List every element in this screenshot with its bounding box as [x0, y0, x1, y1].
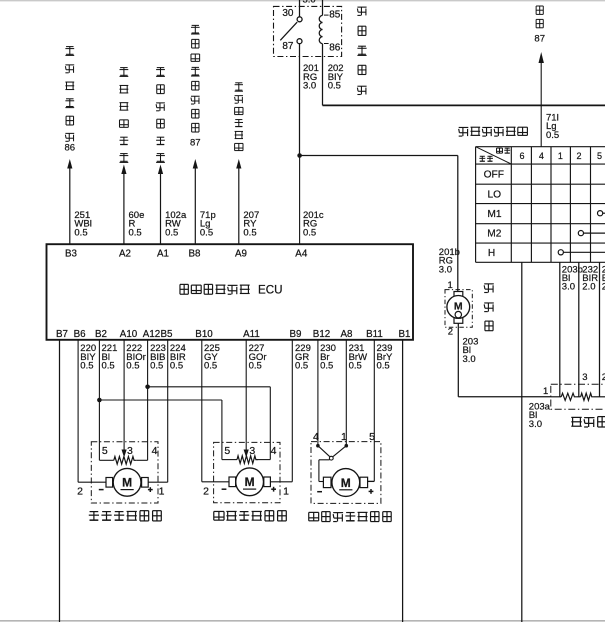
wire with up arrow: branch to reverse lamp fuse (net 60e R, ECU pin A2)	[121, 165, 126, 245]
M3 pin 2 and pin 1 labels	[203, 485, 289, 497]
svg-text:B11: B11	[366, 329, 383, 340]
svg-text:2: 2	[448, 327, 453, 338]
M2 feedback potentiometer	[99, 457, 147, 465]
svg-text:0.5: 0.5	[126, 361, 139, 372]
svg-text:0.5: 0.5	[349, 361, 362, 372]
relay contact terminal 30	[282, 8, 302, 22]
wire 230 Br 0.5 from ECU B12 to motor M4 pin 4	[317, 340, 319, 446]
svg-text:2: 2	[576, 151, 581, 161]
speed resistor R1 (tiao su dian zu) outline box clipped at right edge	[551, 384, 605, 409]
svg-text:OFF: OFF	[484, 170, 504, 181]
M3 polarity marks - and +	[222, 487, 276, 492]
svg-text:B8: B8	[189, 249, 202, 260]
svg-text:85: 85	[329, 9, 341, 20]
svg-text:A12: A12	[143, 329, 160, 340]
wire 201b RG 3.0 from node right and down to blower pin 1	[300, 156, 458, 292]
wire from top edge to relay contact 30	[299, 0, 301, 17]
svg-text:0.5: 0.5	[200, 227, 213, 238]
svg-text:1: 1	[448, 280, 453, 291]
wire from ECU pin B1 to bottom edge	[402, 340, 404, 622]
svg-text:0.5: 0.5	[204, 361, 217, 372]
resistor pin 2 label	[602, 372, 605, 383]
svg-text:A8: A8	[341, 329, 354, 340]
wire label 201b RG 3.0	[439, 247, 460, 275]
svg-text:H: H	[488, 248, 495, 259]
wire label 232 BIR 2.0	[582, 264, 598, 292]
svg-text:A11: A11	[243, 329, 260, 340]
svg-text:87: 87	[190, 138, 201, 149]
M3 feedback potentiometer	[222, 456, 270, 464]
svg-text:B6: B6	[74, 329, 87, 340]
label: speed resistor (tiao su dian zu) clipped	[571, 417, 605, 427]
svg-text:1: 1	[283, 485, 289, 497]
svg-text:LO: LO	[488, 189, 502, 200]
wire 201c RG 0.5 from node down to ECU pin A4	[299, 156, 301, 245]
label vertical text: branch to high/low pressure switch (net 207 RY, ECU pin A9)	[235, 83, 243, 151]
svg-text:A1: A1	[157, 249, 169, 260]
relay contact terminal 87	[282, 39, 302, 53]
wire 224 BIR 0.5 from ECU B5 to motor M2 pin 1	[148, 340, 168, 482]
blower motor terminals and body	[447, 292, 470, 324]
wire label 102a RW 0.5	[165, 210, 187, 238]
svg-text:5: 5	[597, 151, 602, 161]
M2 polarity marks - and +	[99, 487, 153, 492]
wire 201 RG 3.0 from relay 87 down to node	[299, 44, 301, 156]
wire 202 BIY 0.5 from relay coil 86 down then right to page edge	[323, 44, 605, 106]
svg-text:87: 87	[534, 33, 545, 44]
svg-text:0.5: 0.5	[129, 227, 142, 238]
label vertical text: fan relay (feng ji ji dian qi)	[357, 7, 366, 94]
resistor element R1a between pins 1 and 3	[551, 393, 581, 400]
wire label 225 GY 0.5	[204, 343, 220, 372]
svg-text:B2: B2	[95, 329, 107, 340]
partial clipped wire label at top edge	[303, 0, 316, 6]
wire label 203a Bl 3.0	[529, 402, 551, 430]
label: manual electronic A/C ECU (shou dong dian kong kong tiao ECU)	[180, 283, 283, 296]
svg-text:3: 3	[127, 445, 133, 457]
wire label 203b Bl 3.0	[562, 264, 583, 292]
svg-text:M: M	[245, 475, 255, 489]
wire label 71l Lg 0.5	[546, 112, 559, 141]
svg-text:3.0: 3.0	[463, 354, 476, 365]
svg-text:0.5: 0.5	[249, 361, 262, 372]
svg-text:A10: A10	[120, 329, 138, 340]
wire from switch terminal 5 down to resistor pin 2 (clipped label)	[599, 262, 601, 397]
svg-text:A2: A2	[119, 249, 131, 260]
M3 motor body with terminals	[229, 468, 270, 496]
table row labels OFF LO M1 M2 H	[484, 170, 504, 260]
label: A/C fan speed switch title (kong tiao feng su kai guan)	[459, 127, 528, 136]
wire label 202 BIY 0.5	[328, 63, 344, 91]
svg-text:B10: B10	[195, 329, 213, 340]
wire 229 GR 0.5 from ECU B9 to motor M3 pin 1	[270, 340, 292, 482]
svg-text:0.5: 0.5	[80, 361, 93, 372]
wire 203 Bl 3.0 from blower pin 2 down then right to resistor pin 1	[458, 323, 551, 397]
temperature door servo motor M3 outline box	[214, 442, 280, 502]
svg-text:3.0: 3.0	[303, 0, 316, 6]
resistor pin 3 label	[582, 372, 587, 383]
label vertical text: branch to radio fuse (net 102a RW, ECU pin A1)	[156, 68, 165, 163]
wire label 239 BrY 0.5	[377, 343, 394, 372]
junction node on net 201	[297, 153, 302, 158]
relay coil between pins 85 and 86	[319, 0, 341, 54]
M2 pin 2 and pin 1 labels	[77, 485, 165, 497]
M4 wire pin 5 to motor plus	[368, 480, 375, 482]
wire 223 BIB 0.5 from ECU A12 to motors pin 4	[148, 340, 271, 460]
svg-text:0.5: 0.5	[170, 361, 183, 372]
switch contact circle row M2 col 2 with bar	[578, 231, 605, 236]
svg-text:1: 1	[159, 485, 165, 497]
svg-text:1: 1	[543, 386, 548, 397]
position door servo motor M2 outline box	[91, 442, 158, 503]
svg-text:1: 1	[341, 431, 347, 443]
svg-text:0.5: 0.5	[328, 81, 341, 92]
wire 225 GY 0.5 from ECU B10 to motor M3 pin 2	[202, 340, 229, 482]
svg-text:B12: B12	[313, 329, 330, 340]
svg-text:3.0: 3.0	[562, 282, 575, 293]
svg-text:B7: B7	[56, 329, 68, 340]
svg-text:3.0: 3.0	[529, 419, 542, 430]
svg-text:0.5: 0.5	[377, 361, 390, 372]
ECU top pin labels B3 A2 A1 B8 A9 A4	[65, 249, 308, 260]
wire label 227 GOr 0.5	[249, 343, 267, 372]
label: position door micro motor (wei zhi men wei dian ji)	[89, 511, 162, 521]
svg-text:0.5: 0.5	[102, 361, 115, 372]
label vertical text: blower (gu feng ji)	[484, 284, 494, 331]
svg-text:3: 3	[582, 372, 587, 383]
wire label 201c RG 0.5	[303, 210, 324, 238]
blower motor M1 (gu feng ji) outline box	[445, 290, 472, 328]
svg-text:2.0: 2.0	[582, 282, 595, 293]
wire label 223 BIB 0.5	[150, 343, 166, 372]
svg-text:30: 30	[282, 8, 294, 19]
svg-text:5: 5	[224, 445, 230, 457]
wire 227 GOr 0.5 from ECU A11 to motor M3 wiper pin 3	[244, 340, 249, 458]
wire from switch terminal 6 down to bottom edge (net 203a)	[521, 262, 523, 622]
label vertical text: branch to reverse lamp fuse (net 60e R, ECU pin A2)	[120, 68, 129, 163]
M2 pin labels 5 3 4	[102, 445, 158, 457]
table header diagonal cell: terminal / position	[476, 147, 512, 164]
relay contact blade (open)	[280, 22, 297, 40]
wire label 229 GR 0.5	[295, 343, 311, 372]
fan speed switch S1 contact table grid	[476, 147, 605, 263]
wire 220 BIY 0.5 from ECU B6 to motor M2 pin 2	[78, 340, 106, 482]
svg-text:4: 4	[271, 445, 277, 457]
M4 polarity marks - and +	[317, 489, 373, 494]
M4 motor body with terminals	[323, 469, 367, 497]
wire label 60e R 0.5	[129, 210, 145, 238]
wire label 231 BrW 0.5	[349, 343, 368, 372]
wire 71l Lg 0.5 from switch terminal 4 up with arrow to pin 87	[539, 52, 544, 147]
svg-text:0.5: 0.5	[243, 227, 256, 238]
svg-text:3.0: 3.0	[303, 81, 316, 92]
junction node on net 223	[145, 385, 150, 390]
resistor pin 1 label	[543, 386, 548, 397]
svg-text:0.5: 0.5	[303, 227, 316, 238]
wire label 222 BIOr 0.5	[126, 343, 146, 372]
recirculation air door motor M4 outline box	[311, 442, 381, 504]
svg-text:3.0: 3.0	[439, 264, 452, 275]
wire with up arrow: branch to small lamp relay pin 87 (net 71p Lg, ECU pin B8)	[193, 159, 198, 244]
table terminal column headers 6 4 1 2 5	[519, 151, 602, 161]
svg-text:4: 4	[313, 431, 319, 443]
svg-text:0.5: 0.5	[546, 130, 559, 141]
wire 221 Bl 0.5 from ECU B2 to motors pin 5	[99, 340, 221, 460]
label vertical text: branch to defrost relay pin 86 (net 251 WBl, ECU pin B3)	[65, 47, 76, 154]
svg-text:0.5: 0.5	[295, 361, 308, 372]
svg-text:0.5: 0.5	[165, 227, 178, 238]
wire label 203 Bl 3.0	[463, 336, 479, 364]
svg-text:0.5: 0.5	[74, 227, 87, 238]
wire with up arrow: branch to high/low pressure switch (net 207 RY, ECU pin A9)	[236, 159, 241, 244]
M4 limit switch contacts	[316, 444, 348, 460]
wire label 201 RG 3.0	[303, 63, 319, 91]
svg-text:86: 86	[65, 143, 76, 154]
svg-text:B5: B5	[161, 329, 174, 340]
M2 motor body with terminals	[106, 468, 148, 496]
label: recirculation air door micro motor (xun huan feng men wei dian ji)	[309, 512, 391, 522]
svg-text:ECU: ECU	[258, 283, 282, 296]
wire 239 BrY 0.5 from ECU B11 to motor M4 pin 5	[368, 340, 375, 481]
svg-text:86: 86	[329, 43, 341, 54]
label: temperature door micro motor (wen du men wei dian ji)	[214, 511, 287, 521]
switch contact circle row M1 col 5	[598, 211, 605, 216]
wire label 220 BIY 0.5	[80, 343, 96, 372]
relay K1 fan relay outline box	[274, 6, 342, 56]
switch contact circle row H col 1 with bar	[558, 250, 605, 255]
svg-text:4: 4	[152, 445, 158, 457]
wire with up arrow: branch to defrost relay pin 86 (net 251 WBl, ECU pin B3)	[67, 159, 72, 244]
wire from ECU pin B7 to bottom edge	[59, 340, 61, 622]
blower motor pin 2 label	[448, 327, 453, 338]
svg-text:M1: M1	[487, 209, 501, 220]
ECU U1 manual climate control box	[47, 244, 414, 340]
svg-text:B9: B9	[290, 329, 302, 340]
svg-text:A4: A4	[295, 249, 308, 260]
svg-text:B1: B1	[399, 329, 411, 340]
wire label 71p Lg 0.5	[200, 210, 216, 238]
M3 pin labels 5 3 4	[224, 445, 276, 457]
svg-text:6: 6	[519, 151, 524, 161]
resistor element R1b between pins 3 and 2	[581, 393, 605, 400]
clipped wire label at right edge	[602, 264, 605, 292]
ECU bottom pin labels B7 B6 B2 A10 A12 B5 B10 A11 B9 B12 A8 B11 B1	[56, 329, 410, 340]
wire 231 BrW 0.5 from ECU A8 to motor M4 pin 1	[345, 340, 347, 446]
wire label 224 BIR 0.5	[170, 343, 186, 372]
svg-text:5: 5	[102, 445, 108, 457]
scan edge artifact bottom	[0, 620, 605, 622]
label vertical text: branch to small lamp relay pin 87 (net 71p Lg, ECU pin B8)	[190, 25, 201, 148]
svg-text:0.5: 0.5	[150, 361, 163, 372]
svg-text:A9: A9	[235, 249, 247, 260]
blower motor pin 1 label	[448, 280, 453, 291]
svg-text:4: 4	[539, 151, 544, 161]
wire 222 BIOr 0.5 from ECU A10 to motor M2 wiper pin 3	[122, 340, 127, 458]
scan edge artifact top	[0, 0, 605, 2]
svg-text:87: 87	[282, 41, 294, 52]
svg-text:0.5: 0.5	[320, 361, 333, 372]
svg-text:2: 2	[77, 485, 83, 497]
svg-text:M2: M2	[487, 229, 501, 240]
junction node on net 221	[97, 398, 102, 403]
svg-text:M: M	[454, 301, 463, 313]
svg-text:1: 1	[558, 151, 563, 161]
wire label 230 Br 0.5	[320, 343, 336, 372]
relay internal divider dashes	[324, 15, 329, 43]
wire label 251 WBl 0.5	[74, 210, 91, 238]
M4 pin labels 4 1 5	[313, 431, 375, 443]
svg-text:M: M	[341, 476, 351, 490]
label vertical text: to pin 87 (yin jiao 87)	[534, 6, 545, 44]
wire 203b Bl 3.0 from switch terminal 1 down into resistor	[559, 262, 561, 397]
svg-text:2: 2	[203, 485, 209, 497]
svg-text:M: M	[122, 476, 132, 490]
wire 232 BIR 2.0 from switch terminal 2 down to resistor pin 3	[578, 262, 580, 397]
svg-text:5: 5	[369, 431, 375, 443]
svg-text:B3: B3	[65, 249, 78, 260]
wire label 221 Bl 0.5	[102, 343, 118, 372]
wire label 207 RY 0.5	[243, 210, 259, 238]
wire with up arrow: branch to radio fuse (net 102a RW, ECU pin A1)	[158, 165, 163, 245]
M4 wire from common contact to motor minus	[319, 460, 330, 482]
